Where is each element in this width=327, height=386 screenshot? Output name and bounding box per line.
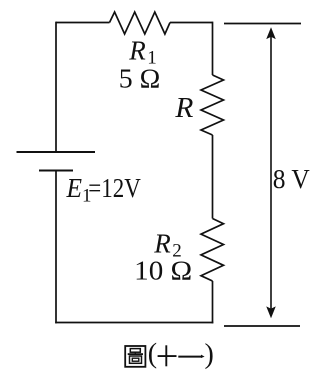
svg-text:): ) [205, 339, 214, 370]
wire top-right segment [170, 22, 213, 24]
resistor R2 [201, 219, 224, 282]
svg-text:R: R [174, 92, 193, 124]
battery E1 short plate [39, 170, 73, 172]
wire bottom [55, 322, 213, 324]
caption glyph one [178, 356, 202, 358]
wire right middle [212, 135, 214, 219]
svg-text:E: E [66, 173, 83, 203]
reference bar bottom [224, 325, 300, 327]
caption glyph ten [158, 345, 177, 366]
svg-text:8 V: 8 V [273, 164, 310, 194]
wire left upper [55, 22, 57, 152]
resistor R [201, 75, 224, 135]
svg-text:10 Ω: 10 Ω [134, 256, 192, 286]
svg-text:5 Ω: 5 Ω [119, 63, 161, 93]
arrowhead up [267, 28, 275, 39]
svg-text:R: R [128, 35, 146, 65]
wire top-left segment [56, 22, 110, 24]
battery E1 long plate [17, 151, 96, 153]
svg-text:(: ( [148, 339, 157, 370]
caption figure(eleven): glyph tu outer box [125, 346, 145, 367]
reference bar top [224, 23, 301, 25]
svg-text:=12V: =12V [88, 173, 141, 203]
dimension arrow 8V shaft [270, 36, 272, 310]
wire left lower [55, 171, 57, 324]
wire right upper [212, 22, 214, 75]
resistor R1 [110, 12, 171, 34]
wire right lower [212, 281, 214, 323]
svg-text:R: R [153, 228, 171, 258]
arrowhead down [267, 307, 275, 318]
